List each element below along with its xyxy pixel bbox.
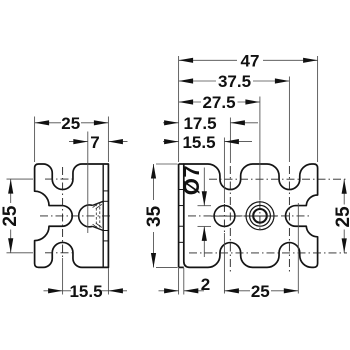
svg-text:35: 35 xyxy=(144,205,165,227)
extension line, upper pitch line left view xyxy=(7,178,34,180)
big hole (rivet boss) xyxy=(246,202,274,230)
dim 25 bottom right xyxy=(224,282,298,301)
mid CL left view xyxy=(40,215,113,217)
dim 47 xyxy=(179,52,318,71)
svg-text:25: 25 xyxy=(61,114,80,133)
A-bar tick, top slot root xyxy=(179,189,184,191)
slot CL x=62.6 left view xyxy=(62,167,64,258)
A-bar tick, side slot upper edge xyxy=(179,205,184,207)
svg-text:Ø7: Ø7 xyxy=(179,165,204,195)
extension line, slot 1 centre (17.5 dim) xyxy=(229,118,231,164)
slot CL x=230.3 xyxy=(229,166,231,272)
extension line, system line right (bottom 25 dim) xyxy=(297,203,299,294)
extension line, flange left face datum xyxy=(178,56,180,162)
dim 35 vertical xyxy=(144,164,165,268)
pitch line y=179.2 right view xyxy=(209,178,347,180)
svg-text:27.5: 27.5 xyxy=(202,93,235,112)
plate B outline (right view) xyxy=(184,164,318,267)
dim 7 left view xyxy=(69,133,128,152)
extension line, plate right edge (47 dim) xyxy=(317,56,319,162)
extension line, hole centre (15.5 dim) xyxy=(223,138,225,204)
plate A outline (left view silhouette) xyxy=(35,164,109,267)
svg-text:37.5: 37.5 xyxy=(218,72,251,91)
dim 37.5 xyxy=(179,72,290,91)
extension line, left view left edge xyxy=(34,117,36,163)
extension line, bar right face to 15.5 dim xyxy=(107,268,109,295)
extension line, left view bar right face xyxy=(107,117,109,163)
svg-text:47: 47 xyxy=(241,52,260,71)
bar B tick, boss seat top xyxy=(103,200,108,202)
small hole xyxy=(214,206,235,227)
bar B tick, top slot root xyxy=(103,190,108,192)
slot CL x=289.4 xyxy=(288,166,290,272)
dim 15.5 bottom left view xyxy=(44,282,128,301)
extension line, slot 2 centre (37.5 dim) xyxy=(288,77,290,163)
A-bar ticks xyxy=(179,190,184,243)
svg-text:17.5: 17.5 xyxy=(183,114,216,133)
boss dome (left view) xyxy=(79,205,93,227)
dim 2 bottom xyxy=(159,275,211,294)
bar top/bottom edges (right view, A-bar) xyxy=(179,163,184,165)
dim 25 top-left view xyxy=(35,114,109,133)
small hole vertical CL xyxy=(223,204,225,233)
extension line, rivet centre (27.5 dim) xyxy=(259,97,261,201)
bar B tick, bottom slot root xyxy=(103,240,108,242)
extension line, hole centre to bottom 25 dim xyxy=(223,233,225,294)
dim 27.5 xyxy=(179,93,260,112)
svg-text:25: 25 xyxy=(333,206,350,228)
boss trapezoid xyxy=(93,201,104,230)
pitch line y=252.8 left view xyxy=(45,252,76,254)
big hole vertical CL xyxy=(259,201,261,232)
A-bar tick, side slot lower edge xyxy=(179,225,184,227)
extension line, plate top (35 dim) xyxy=(156,163,178,165)
A-bar edge-on (right view) xyxy=(178,164,180,267)
extension line, plate bottom (35 dim) xyxy=(156,266,178,268)
bar B tick, boss seat bottom xyxy=(103,230,108,232)
pitch line y=179 left view xyxy=(45,178,76,180)
dim 25 left vertical xyxy=(0,179,21,253)
svg-text:2: 2 xyxy=(201,275,210,294)
dim Ø7 leader xyxy=(179,165,211,257)
mid CL right view xyxy=(188,215,312,217)
pitch line y=252.9 right view xyxy=(189,252,347,254)
extension line, flange right face to 2 dim xyxy=(183,268,185,295)
svg-text:15.5: 15.5 xyxy=(69,282,102,301)
svg-text:15.5: 15.5 xyxy=(182,133,215,152)
bar B left face (left view) xyxy=(102,165,104,267)
dim 25 right vertical xyxy=(333,179,350,253)
extension line, flange left face to 2 dim xyxy=(178,268,180,295)
extension line, boss face (7 dim) xyxy=(87,132,89,234)
dim 17.5 xyxy=(163,114,258,133)
boss serration xyxy=(93,202,102,229)
extension line, slot centre to 15.5 dim xyxy=(62,258,64,295)
svg-text:25: 25 xyxy=(0,205,21,227)
extension line, lower pitch line left view xyxy=(7,252,34,254)
svg-text:25: 25 xyxy=(251,282,270,301)
svg-text:7: 7 xyxy=(90,133,99,152)
dim 15.5 top xyxy=(163,133,252,152)
A-bar tick, bottom slot root xyxy=(179,241,184,243)
